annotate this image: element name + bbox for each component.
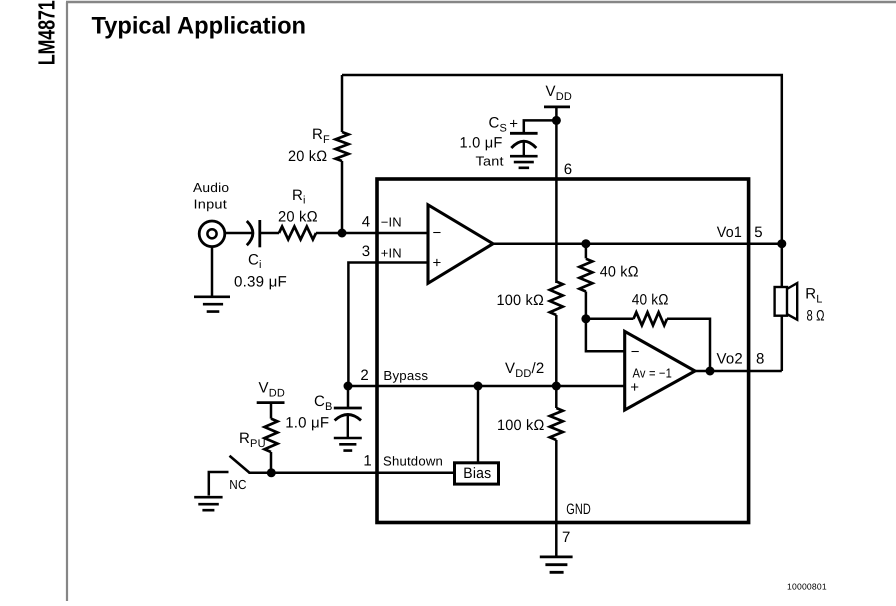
capacitor CS wiring (524, 120, 557, 133)
svg-text:8: 8 (756, 351, 765, 368)
capacitor CB curved plate (335, 415, 361, 421)
wire: U2 output Vo2 (695, 370, 782, 373)
svg-text:100 kΩ: 100 kΩ (497, 417, 545, 434)
svg-text:−: − (631, 343, 640, 360)
wire: speaker column (781, 244, 784, 371)
ground below NC (194, 497, 222, 510)
svg-text:+IN: +IN (381, 245, 402, 260)
svg-text:4: 4 (362, 213, 371, 230)
node: divider mid (552, 382, 561, 391)
svg-text:VDD: VDD (259, 379, 286, 399)
wire: RF bottom stub (341, 161, 344, 233)
wire: jack ground stem (211, 246, 214, 296)
svg-text:3: 3 (362, 243, 371, 260)
page frame top rule (66, 1, 896, 3)
svg-text:Input: Input (194, 196, 228, 211)
svg-text:1: 1 (363, 452, 372, 469)
svg-text:Bias: Bias (463, 465, 491, 482)
wire: Ci to Ri (260, 232, 279, 235)
svg-text:VDD: VDD (546, 83, 573, 103)
wire: 40k horizontal to Vo2 node (667, 319, 710, 371)
svg-text:Vo1: Vo1 (717, 224, 742, 241)
resistor 100k lower (550, 408, 563, 440)
wire: feedback to U2 minus input (586, 319, 624, 352)
node: shutdown/RPU (267, 468, 276, 477)
svg-text:10000801: 10000801 (787, 582, 827, 592)
page frame left rule (66, 2, 68, 601)
wire: bias drop (477, 386, 479, 463)
svg-text:+: + (433, 255, 442, 272)
svg-text:−: − (433, 224, 442, 241)
svg-text:GND: GND (566, 501, 591, 518)
resistor Ri 20k (279, 227, 316, 240)
wire: RPU to shutdown node (270, 452, 273, 473)
capacitor Ci (247, 221, 253, 245)
wire: jack to Ci (225, 232, 253, 235)
svg-text:RF: RF (312, 126, 330, 146)
svg-text:LM4871: LM4871 (34, 0, 60, 65)
VDD bar (RPU pull-up) (257, 401, 285, 404)
capacitor CS plate (510, 132, 538, 135)
wire: VDD stem / pin6 / divider column (555, 107, 558, 283)
svg-text:CB: CB (314, 393, 333, 413)
resistor RF (336, 132, 349, 161)
audio input jack (199, 221, 225, 247)
node: bypass/CB (344, 382, 353, 391)
wire: 40k vertical chain (585, 244, 588, 259)
speaker RL (775, 287, 787, 316)
svg-text:RPU: RPU (239, 430, 266, 450)
switch arm (230, 456, 250, 473)
wire: Ri to op-amp U1 minus input (316, 232, 428, 235)
svg-text:7: 7 (562, 529, 571, 546)
svg-text:+: + (509, 115, 518, 132)
svg-text:40 kΩ: 40 kΩ (632, 291, 669, 308)
VDD bar (top supply) (544, 106, 570, 109)
capacitor CS curved plate (511, 141, 536, 148)
svg-text:8 Ω: 8 Ω (807, 308, 825, 325)
wire: top feedback run (342, 75, 782, 244)
op-amp U2 (Av = -1) (625, 331, 695, 410)
svg-text:1.0 μF: 1.0 μF (285, 415, 329, 432)
svg-text:0.39 μF: 0.39 μF (234, 274, 287, 291)
wire: RF top stub (341, 75, 344, 132)
IC boundary box (377, 179, 749, 523)
svg-text:Shutdown: Shutdown (383, 453, 443, 468)
ground below CS (510, 156, 538, 168)
NC contact wire (209, 472, 229, 496)
capacitor CB plate (334, 407, 362, 410)
node: Vo1/40k (581, 239, 590, 248)
svg-text:20 kΩ: 20 kΩ (288, 148, 327, 165)
wire: 40k horizontal left stub (586, 318, 634, 321)
node: Vo1/speaker (777, 239, 786, 248)
node: bias tap (474, 382, 483, 391)
wire: VDD/2 rail to 100k lower (555, 386, 558, 408)
wire: bypass rail (348, 385, 624, 388)
svg-text:20 kΩ: 20 kΩ (278, 209, 318, 226)
svg-text:Bypass: Bypass (383, 368, 428, 383)
svg-text:100 kΩ: 100 kΩ (497, 292, 545, 309)
svg-text:Vo2: Vo2 (717, 350, 743, 367)
svg-text:NC: NC (229, 477, 246, 492)
svg-text:RL: RL (805, 286, 822, 306)
resistor 40k vertical (579, 259, 592, 292)
resistor 40k horizontal (634, 312, 668, 325)
wire: shutdown run (249, 472, 455, 475)
node: Vo2 (706, 367, 715, 376)
ground below CB (334, 438, 362, 451)
Bias box (455, 463, 499, 484)
wire: CB stem (347, 386, 350, 408)
ground GND pin 7 (540, 557, 573, 572)
svg-text:5: 5 (754, 224, 763, 241)
svg-text:6: 6 (564, 161, 573, 178)
wire: 100k lower to GND pin 7 (555, 440, 558, 556)
svg-text:−IN: −IN (381, 214, 402, 229)
svg-text:CS: CS (489, 115, 508, 135)
node: 40k/40k feedback (581, 314, 590, 323)
resistor 100k upper (550, 282, 563, 316)
svg-text:Tant: Tant (476, 154, 504, 169)
svg-text:40 kΩ: 40 kΩ (600, 263, 639, 280)
op-amp U1 (428, 205, 493, 283)
svg-text:Typical Application: Typical Application (92, 13, 307, 40)
svg-text:Av = −1: Av = −1 (633, 365, 673, 380)
wire: RPU top stub (270, 403, 273, 419)
svg-text:Audio: Audio (193, 180, 229, 195)
svg-text:VDD/2: VDD/2 (505, 360, 544, 380)
svg-text:2: 2 (360, 367, 369, 384)
wire: 100k upper to VDD/2 rail (555, 315, 558, 386)
resistor RPU (265, 419, 278, 452)
svg-text:Ri: Ri (292, 187, 306, 207)
node: VDD/CS (552, 116, 561, 125)
svg-text:+: + (630, 379, 639, 396)
wire: op-amp U1 output to Vo1 (493, 242, 782, 245)
wire: +IN drop to bypass node (348, 263, 428, 387)
ground below jack (194, 297, 230, 312)
node: Ri/RF junction (338, 229, 347, 238)
svg-text:1.0 μF: 1.0 μF (460, 135, 503, 152)
svg-text:Ci: Ci (248, 252, 262, 272)
